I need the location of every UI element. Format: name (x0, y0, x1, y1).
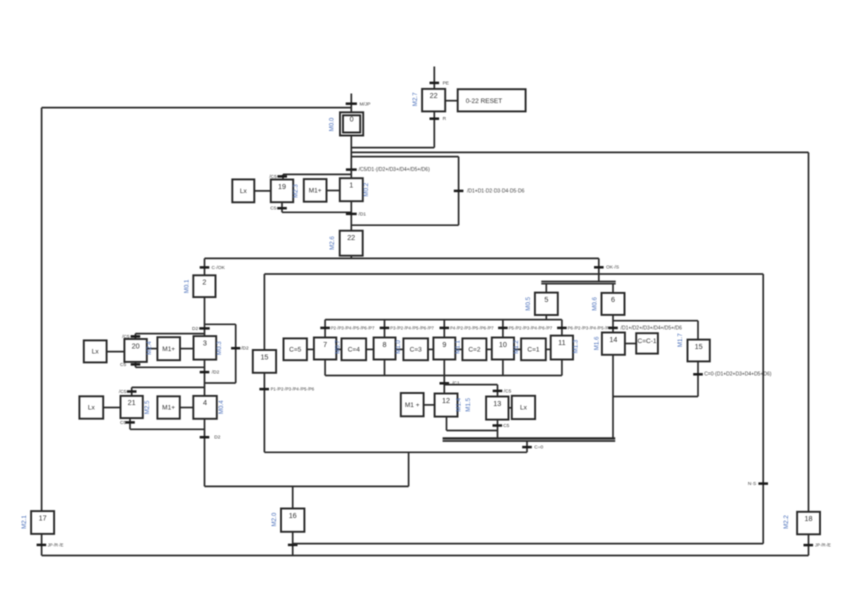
svg-text:P1·/P2·/P3·/P4·/P5·/P6: P1·/P2·/P3·/P4·/P5·/P6 (271, 387, 315, 392)
step 14 (602, 333, 625, 355)
svg-text:15: 15 (695, 342, 703, 351)
wire (135, 362, 137, 367)
wire (561, 360, 563, 376)
svg-text:M1.6: M1.6 (593, 336, 600, 350)
svg-text:M2.0: M2.0 (271, 512, 278, 526)
transition P1... (259, 387, 314, 392)
svg-text:6: 6 (611, 295, 615, 304)
svg-text:18: 18 (805, 514, 813, 523)
svg-text:M2.6: M2.6 (329, 236, 336, 250)
svg-text:/D2: /D2 (241, 346, 249, 352)
svg-text:R: R (443, 116, 447, 122)
wire (384, 320, 386, 338)
svg-text:C=2: C=2 (468, 347, 480, 354)
label M2.6 (329, 236, 336, 250)
transition (16) (288, 544, 298, 547)
wire (325, 375, 562, 377)
svg-text:M1+: M1+ (162, 346, 175, 353)
svg-text:M2.4: M2.4 (146, 341, 153, 355)
step 8 (374, 338, 396, 360)
wire (351, 147, 434, 149)
transition /C5 (21) (119, 389, 137, 395)
label M0.6 (592, 296, 599, 310)
svg-text:/D1+D1·D2·D3·D4·D5·D6: /D1+D1·D2·D3·D4·D5·D6 (467, 188, 525, 194)
transition OK./S (594, 265, 619, 271)
wire (697, 321, 699, 340)
svg-text:M1+: M1+ (309, 188, 322, 195)
wire (546, 348, 551, 350)
wire (350, 256, 352, 259)
wire (41, 534, 43, 556)
wire (134, 334, 136, 339)
step 7 (314, 338, 336, 360)
svg-text:15: 15 (260, 352, 268, 361)
svg-text:22: 22 (347, 233, 355, 242)
svg-text:C5: C5 (120, 362, 126, 368)
step 0 (initial) (340, 112, 363, 135)
parallel convergence (443, 438, 616, 441)
transition N.S (748, 481, 768, 487)
svg-text:OK·/S: OK·/S (606, 265, 619, 271)
wire (384, 360, 386, 376)
svg-text:M2.7: M2.7 (412, 92, 419, 106)
wire (613, 320, 698, 322)
svg-text:P5·/P2·/P3·/P4·/P6·/P7: P5·/P2·/P3·/P4·/P6·/P7 (509, 325, 553, 330)
svg-text:M2.2: M2.2 (783, 515, 790, 529)
wire (443, 376, 445, 394)
svg-text:C=5: C=5 (289, 347, 301, 354)
transition /C1 (440, 381, 460, 387)
label M2.0 (271, 512, 278, 526)
label M1.2 (513, 340, 520, 354)
wire (445, 100, 458, 102)
wire (428, 348, 433, 350)
step 20 (124, 339, 146, 362)
step 11 (551, 336, 573, 360)
step 22 (M2.6) (340, 231, 363, 256)
transition P3 (380, 325, 435, 330)
svg-text:M1.2: M1.2 (513, 340, 520, 354)
wire (327, 190, 340, 192)
svg-text:/C1: /C1 (452, 381, 460, 387)
wire (697, 361, 699, 396)
wire (433, 111, 435, 147)
label M2.5 (144, 400, 151, 414)
wire (455, 348, 462, 350)
wire (180, 407, 194, 409)
wire (205, 257, 599, 259)
transition C=0(D1..) (693, 372, 772, 378)
svg-text:/C5/D1·(/D2+/D3+/D4+/D5+/D6): /C5/D1·(/D2+/D3+/D4+/D5+/D6) (359, 167, 430, 173)
action box 0-22 RESET (458, 89, 526, 111)
wire (561, 320, 563, 338)
wire (205, 323, 236, 325)
step 10 (492, 338, 514, 360)
wire (808, 534, 810, 555)
wire (350, 201, 352, 231)
svg-text:M0.6: M0.6 (592, 296, 599, 310)
svg-text:M1.1: M1.1 (455, 340, 462, 354)
transition PE (430, 80, 450, 86)
svg-text:C5: C5 (503, 423, 509, 429)
label M1.0 (395, 340, 402, 354)
wire (424, 404, 435, 406)
svg-text:P2·/P3·/P4·/P5·/P6·/P7: P2·/P3·/P4·/P5·/P6·/P7 (331, 325, 375, 330)
wire (444, 384, 497, 386)
svg-text:C=0·(D1+D2+D3+D4+D5+D6): C=0·(D1+D2+D3+D4+D5+D6) (704, 372, 772, 378)
step 19 (271, 180, 293, 203)
svg-text:M2.3: M2.3 (293, 184, 300, 198)
transition P4 (440, 325, 495, 330)
transition /C5 (13) (493, 388, 512, 394)
transition C5 (20) (120, 362, 140, 368)
svg-text:P6·/P2·/P3·/P4·/P5·/P7: P6·/P2·/P3·/P4·/P5·/P7 (568, 325, 612, 330)
svg-text:M0.4: M0.4 (218, 400, 225, 414)
wire (281, 202, 283, 212)
svg-text:19: 19 (278, 182, 286, 191)
svg-text:C5: C5 (120, 420, 126, 426)
svg-text:1: 1 (349, 181, 353, 190)
action box M1+ (step4) (157, 396, 179, 418)
svg-text:20: 20 (132, 341, 140, 350)
wire (613, 396, 698, 398)
wire (762, 274, 764, 544)
svg-text:Lx: Lx (88, 405, 96, 412)
svg-text:22: 22 (430, 91, 438, 100)
wire (514, 348, 521, 350)
svg-text:11: 11 (558, 338, 565, 347)
wire (336, 348, 341, 350)
label M2.3 (293, 184, 300, 198)
wire (351, 151, 808, 153)
wire (808, 152, 810, 511)
wire (204, 360, 206, 396)
action box C=3 (403, 338, 428, 360)
wire (443, 320, 445, 338)
step 5 (535, 293, 558, 315)
svg-text:M0.5: M0.5 (525, 296, 532, 310)
wire (545, 284, 547, 293)
svg-text:M1 +: M1 + (405, 402, 420, 409)
svg-text:D2: D2 (192, 326, 198, 332)
label M2.1 (21, 515, 28, 529)
svg-text:N·S: N·S (748, 481, 756, 487)
action box Lx (step13) (512, 396, 535, 419)
label M2.4 (146, 341, 153, 355)
wire (254, 190, 270, 192)
svg-text:2: 2 (202, 278, 206, 287)
transition /D1+D1... (454, 188, 525, 194)
svg-text:M0.3: M0.3 (216, 341, 223, 355)
wire (147, 348, 158, 350)
wire (447, 430, 498, 432)
wire (263, 373, 265, 453)
wire (408, 452, 410, 486)
action box M1+ (step3) (157, 337, 180, 360)
svg-text:JP·/R·/E: JP·/R·/E (815, 543, 831, 548)
action box Lx (step21) (79, 396, 103, 418)
label M1.5 (465, 397, 472, 411)
svg-text:/D2: /D2 (212, 370, 220, 376)
wire (325, 319, 562, 321)
svg-text:P3·/P2·/P4·/P5·/P6·/P7: P3·/P2·/P4·/P5·/P6·/P7 (390, 325, 434, 330)
svg-text:M1.5: M1.5 (465, 397, 472, 411)
wire (282, 211, 351, 213)
step 2 (193, 275, 215, 297)
svg-text:C=3: C=3 (410, 347, 422, 354)
wire (136, 366, 205, 368)
wire (282, 174, 284, 179)
label M1.4 (456, 397, 463, 411)
label M0.4 (218, 400, 225, 414)
svg-text:C=4: C=4 (348, 347, 360, 354)
label M0.5 (525, 296, 532, 310)
svg-text:PE: PE (443, 80, 449, 86)
wire (204, 297, 206, 336)
wire (204, 419, 206, 487)
step 4 (193, 396, 217, 419)
label M1.6 (593, 336, 600, 350)
svg-text:16: 16 (289, 511, 297, 520)
svg-text:M1.4: M1.4 (456, 397, 463, 411)
wire (324, 360, 326, 376)
label M0.7 (335, 340, 342, 354)
label M0.1 (183, 279, 190, 293)
label M2.2 (783, 515, 790, 529)
svg-text:13: 13 (493, 399, 501, 408)
svg-text:C=0: C=0 (534, 445, 543, 451)
action box C=5 (284, 338, 307, 360)
wire (497, 420, 499, 439)
transition R (430, 116, 447, 122)
parallel divergence (541, 282, 615, 284)
svg-text:3: 3 (203, 338, 207, 347)
svg-text:8: 8 (383, 340, 387, 349)
wire (509, 407, 512, 409)
wire (350, 136, 352, 170)
transition /C5 (19) (269, 174, 287, 180)
transition P2 (320, 325, 375, 330)
svg-text:Lx: Lx (240, 188, 248, 195)
wire (366, 348, 374, 350)
svg-text:P4·/P2·/P3·/P5·/P6·/P7: P4·/P2·/P3·/P5·/P6·/P7 (450, 325, 494, 330)
svg-text:C5: C5 (270, 206, 276, 212)
wire (433, 67, 435, 89)
step 9 (433, 338, 455, 360)
svg-text:M2.5: M2.5 (144, 400, 151, 414)
action box C=4 (342, 338, 367, 360)
transition /D1 (346, 211, 366, 217)
step 21 (121, 396, 143, 418)
step 17 (31, 511, 54, 534)
transition M/JP (346, 101, 371, 107)
transition C=0 (522, 445, 543, 451)
action box C=2 (462, 338, 486, 360)
transition /C5.D1 (346, 167, 430, 173)
transition /D1+... (608, 325, 682, 331)
wire (497, 385, 499, 397)
wire (396, 348, 404, 350)
transition /C5 (20) (122, 334, 140, 340)
wire (351, 156, 458, 158)
step 22 (M2.7) (422, 89, 445, 112)
wire (612, 355, 614, 439)
wire (132, 386, 205, 388)
label M0.2 (363, 182, 370, 196)
wire (42, 107, 352, 109)
step 12 (435, 394, 458, 417)
wire (612, 315, 614, 333)
svg-text:C=C-1: C=C-1 (638, 338, 657, 345)
wire (307, 348, 314, 350)
svg-text:/C5: /C5 (504, 388, 512, 394)
svg-text:7: 7 (323, 340, 327, 349)
wire (350, 170, 352, 179)
action box M1+ (step12) (401, 393, 424, 416)
wire (526, 441, 528, 452)
wire (41, 108, 43, 512)
svg-text:14: 14 (609, 335, 617, 344)
svg-text:Lx: Lx (520, 405, 528, 412)
transition C5 (21) (120, 420, 135, 426)
wire (205, 485, 409, 487)
transition D2 (4) (200, 435, 221, 441)
wire (502, 360, 504, 376)
wire (350, 94, 352, 113)
transition /D2 (200, 370, 220, 376)
svg-text:/C5: /C5 (119, 389, 127, 395)
step 6 (602, 293, 625, 315)
wire (235, 324, 237, 383)
wire (131, 387, 133, 396)
wire (42, 555, 809, 557)
transition D2 (192, 326, 210, 332)
step 13 (486, 397, 508, 420)
svg-text:M1.7: M1.7 (677, 333, 684, 347)
svg-text:17: 17 (39, 513, 47, 522)
svg-text:M1.3: M1.3 (573, 339, 580, 353)
wire (625, 343, 636, 345)
wire (264, 273, 763, 275)
wire (283, 173, 351, 175)
svg-text:0: 0 (350, 115, 354, 124)
action box M1+ (step1) (304, 179, 327, 202)
svg-text:M0.7: M0.7 (335, 340, 342, 354)
step 18 (797, 512, 820, 535)
transition C./OK (200, 265, 226, 271)
label M1.7 (677, 333, 684, 347)
wire (351, 224, 458, 226)
wire (205, 382, 236, 384)
svg-text:JP·/R·/E: JP·/R·/E (48, 542, 64, 547)
svg-text:M0.0: M0.0 (329, 117, 336, 131)
label M0.0 (329, 117, 336, 131)
svg-text:0-22 RESET: 0-22 RESET (466, 98, 503, 105)
wire (545, 315, 547, 320)
transition JP (18) (804, 543, 832, 548)
wire (486, 348, 491, 350)
svg-text:M0.2: M0.2 (363, 182, 370, 196)
svg-text:C=1: C=1 (527, 347, 539, 354)
wire (598, 258, 600, 281)
wire (443, 360, 445, 376)
wire (293, 543, 764, 545)
action box C=1 (521, 338, 546, 360)
transition /D2 (loop) (231, 346, 249, 352)
wire (612, 284, 614, 293)
svg-text:5: 5 (544, 295, 548, 304)
wire (446, 417, 448, 431)
label M1.1 (455, 340, 462, 354)
svg-text:M1+: M1+ (162, 405, 175, 412)
svg-text:M/JP: M/JP (360, 101, 371, 107)
transition P5 (498, 325, 553, 330)
wire (204, 258, 206, 275)
wire (180, 348, 194, 350)
svg-text:C·/OK: C·/OK (212, 265, 226, 271)
action box C=C-1 (636, 333, 658, 353)
label M1.3 (573, 339, 580, 353)
wire (135, 333, 204, 335)
label M2.7 (412, 92, 419, 106)
action box Lx (step20) (84, 340, 107, 362)
wire (107, 351, 125, 353)
transition JP (17) (37, 542, 64, 547)
wire (264, 451, 527, 453)
svg-text:/D1: /D1 (359, 211, 367, 217)
transition C5 (13) (493, 423, 510, 429)
wire (502, 320, 504, 338)
transition C5 (19) (270, 206, 287, 212)
step 3 (194, 336, 217, 360)
svg-text:Lx: Lx (92, 349, 100, 356)
wire (458, 157, 460, 226)
wire (292, 486, 294, 508)
wire (263, 274, 265, 350)
action box Lx (step19) (232, 179, 254, 202)
svg-text:9: 9 (442, 340, 446, 349)
svg-text:4: 4 (203, 398, 207, 407)
step 15 (right) (688, 340, 710, 362)
wire (103, 407, 120, 409)
wire (324, 320, 326, 338)
svg-text:D2: D2 (214, 435, 220, 441)
svg-text:21: 21 (128, 398, 136, 407)
svg-text:M2.1: M2.1 (21, 515, 28, 529)
step 1 (340, 178, 363, 201)
wire (130, 428, 205, 430)
wire (129, 418, 131, 429)
transition P6 (557, 325, 612, 330)
step 15 (left) (253, 350, 276, 373)
svg-text:10: 10 (499, 340, 507, 349)
step 16 (281, 509, 304, 532)
svg-text:/D1+/D2+/D3+/D4+/D5+/D6: /D1+/D2+/D3+/D4+/D5+/D6 (621, 325, 683, 331)
svg-text:M1.0: M1.0 (395, 340, 402, 354)
svg-text:12: 12 (442, 396, 450, 405)
label M0.3 (216, 341, 223, 355)
wire (292, 532, 294, 556)
svg-text:M0.1: M0.1 (183, 279, 190, 293)
